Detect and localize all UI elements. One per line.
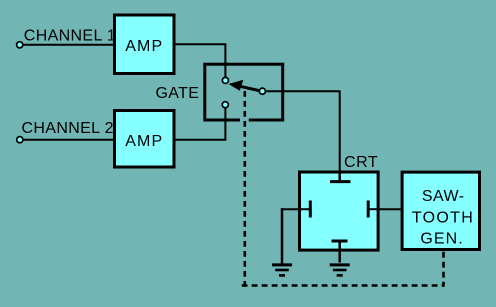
svg-text:AMP: AMP bbox=[125, 133, 163, 150]
svg-text:AMP: AMP bbox=[125, 38, 163, 55]
sawtooth generator box bbox=[402, 172, 479, 249]
CRT left deflection plate bbox=[281, 201, 310, 218]
ground symbol (left, CRT horizontal plate) bbox=[272, 265, 292, 276]
switch arrowhead bbox=[229, 80, 244, 91]
amplifier AMP 1 (channel 1) bbox=[115, 15, 175, 74]
wire left plate to ground bbox=[281, 208, 284, 263]
terminal J1 channel 1 input bbox=[17, 42, 23, 48]
gate box bbox=[205, 64, 283, 120]
svg-text:GATE: GATE bbox=[156, 85, 200, 102]
gate contact lower (channel 2) bbox=[222, 102, 228, 108]
dashed sync line up to sawtooth generator bbox=[442, 252, 445, 287]
switch arm (gate selector) bbox=[240, 86, 260, 91]
wire AMP2 output to gate lower contact bbox=[174, 105, 225, 140]
svg-text:GEN.: GEN. bbox=[420, 231, 464, 248]
svg-text:CRT: CRT bbox=[344, 154, 378, 171]
wire AMP1 output to gate upper contact bbox=[174, 44, 225, 80]
terminal J2 channel 2 input bbox=[17, 137, 23, 143]
dashed sync line vertical from gate bbox=[244, 91, 247, 287]
wire channel 1 input bbox=[22, 44, 116, 46]
svg-text:SAW-: SAW- bbox=[422, 188, 465, 205]
gate contact upper (channel 1) bbox=[222, 77, 228, 83]
wire CRT right plate to sawtooth generator bbox=[379, 208, 402, 210]
svg-text:CHANNEL 2: CHANNEL 2 bbox=[22, 120, 114, 137]
svg-text:TOOTH: TOOTH bbox=[412, 210, 474, 227]
wire gate pole to CRT top (vertical deflection input) bbox=[262, 91, 339, 172]
CRT bottom deflection plate bbox=[332, 241, 348, 263]
dashed sync line horizontal run bbox=[242, 284, 444, 287]
CRT right deflection plate bbox=[368, 201, 379, 218]
gate pole contact (to CRT) bbox=[259, 88, 265, 94]
border break where dashed line crosses gate box bbox=[240, 118, 249, 122]
svg-text:CHANNEL 1: CHANNEL 1 bbox=[24, 27, 116, 44]
amplifier AMP 2 (channel 2) bbox=[115, 111, 175, 168]
wire channel 2 input bbox=[22, 139, 116, 141]
CRT top deflection plate bbox=[330, 172, 351, 182]
ground symbol (below CRT, bottom plate) bbox=[330, 265, 350, 276]
CRT box bbox=[300, 172, 379, 250]
